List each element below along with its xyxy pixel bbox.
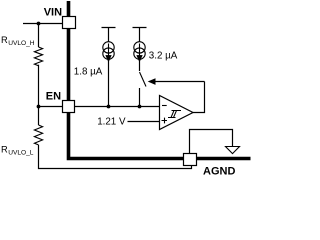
current source I2 (3.2 uA) [134,42,145,62]
wire 1.21 V reference to comparator non-inverting input [128,121,160,123]
node EN divider junction [37,105,41,109]
svg-text:1.21 V: 1.21 V [97,116,126,127]
ground symbol [226,147,240,154]
svg-text:R: R [1,145,8,155]
node switch / EN wire junction [138,105,142,109]
svg-text:UVLO_H: UVLO_H [8,40,35,47]
hysteresis symbol [168,111,181,118]
current source I2 supply bar [133,28,147,42]
switch S1 blade [140,72,147,87]
svg-text:UVLO_L: UVLO_L [8,150,34,157]
resistor RUVLO_H [34,47,42,66]
node VIN divider junction [37,22,41,26]
switch control arrow [148,78,156,85]
wire RUVLO_H bottom to EN node [38,65,40,107]
wire thick VIN rail down and AGND rail right [69,1,251,159]
resistor RUVLO_L [34,125,42,145]
wire EN junction to EN pin [39,106,63,108]
pin plus sign [162,118,168,124]
wire I2 to switch top contact [139,59,141,71]
wire VIN input stub [23,23,63,25]
wire switch control from comparator output [155,81,204,83]
wire EN junction down to RUVLO_L [38,107,40,126]
wire switch bottom contact to EN wire [139,88,141,107]
wire RUVLO_L bottom to AGND pin underside [39,145,192,169]
pin VIN box [63,17,76,29]
pin EN box [63,101,75,113]
svg-text:R: R [1,35,8,45]
wire AGND pin to ground symbol [190,130,233,154]
svg-text:AGND: AGND [203,166,235,178]
pin AGND box [184,154,197,166]
svg-text:EN: EN [46,91,61,103]
pin minus sign [162,105,167,107]
node I1 / EN wire junction [107,105,111,109]
svg-text:3.2 µA: 3.2 µA [149,51,178,62]
wire EN pin to comparator inverting input [75,106,160,108]
wire comparator output feedback loop [193,82,205,113]
svg-text:VIN: VIN [44,7,62,19]
current source I1 (1.8 uA) [103,42,114,62]
wire I1 to EN node [108,59,110,106]
current source I1 supply bar [102,28,116,42]
wire from VIN junction down to RUVLO_H [38,24,40,48]
svg-text:1.8 µA: 1.8 µA [74,67,103,78]
op-amp U1 comparator [160,96,194,130]
